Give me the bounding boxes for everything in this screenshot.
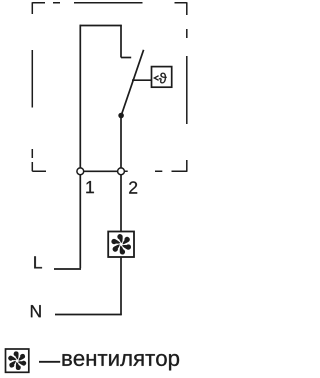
legend dash — [39, 361, 60, 363]
wire: vertical from terminal 2 to fan box — [120, 175, 122, 231]
legend fan box — [6, 349, 29, 372]
terminal 1 (circle) — [77, 168, 84, 175]
thermostat label <theta — [154, 76, 158, 81]
wire: left vertical from terminal 1 down to L corner — [79, 175, 81, 268]
wire: L horizontal lead — [54, 268, 81, 270]
terminal 2 (circle) — [118, 168, 125, 175]
wire: vertical from fan box to N corner — [120, 257, 122, 315]
wire: left vertical from top to terminal 1 — [79, 25, 81, 168]
wire: N horizontal lead — [55, 314, 122, 316]
enclosure dashed border: right side — [186, 2, 188, 171]
wire: vertical from switch pivot to terminal 2 — [120, 116, 122, 168]
wire: link between terminal 1 and terminal 2 — [84, 170, 118, 172]
legend fan impeller — [6, 350, 27, 371]
label L (line) — [34, 256, 42, 268]
fan box M1 — [108, 232, 134, 258]
terminal label 2 — [129, 181, 137, 193]
terminal label 1 — [86, 181, 94, 193]
wire: right vertical down to switch fixed contact — [120, 25, 122, 58]
enclosure dashed border: bottom side — [32, 170, 187, 172]
enclosure dashed border: left side — [31, 2, 33, 171]
switch pivot junction dot — [118, 113, 124, 119]
switch fixed contact bar — [121, 57, 131, 59]
wire: top horizontal feed — [80, 25, 122, 27]
enclosure dashed border: top side — [32, 2, 187, 4]
thermostat box — [152, 67, 172, 88]
fan impeller symbol — [109, 232, 133, 256]
label N (neutral) — [31, 305, 41, 317]
wire: connector from blade to thermostat box — [132, 79, 152, 81]
legend text: ventilyator — [63, 354, 180, 370]
switch blade (thermal contact, open) — [121, 50, 143, 116]
